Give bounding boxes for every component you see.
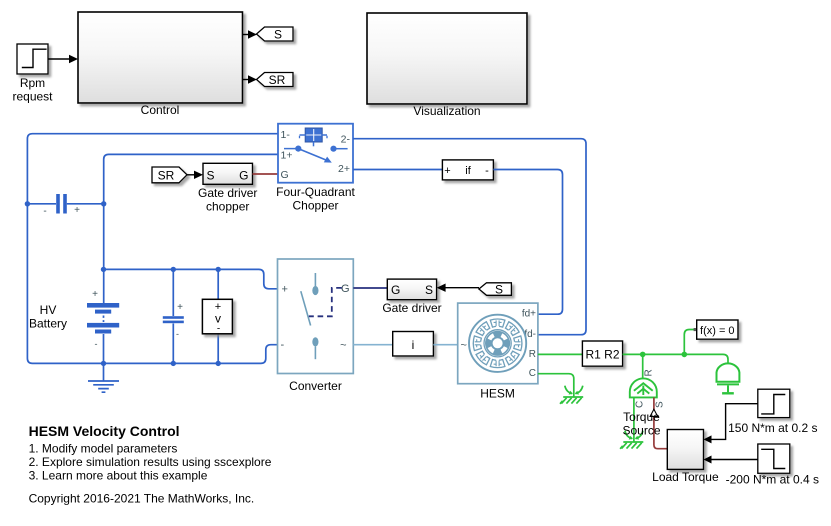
svg-text:HESM Velocity Control: HESM Velocity Control — [29, 423, 180, 439]
HESM motor icon — [469, 315, 526, 372]
wire Control to S tag — [243, 34, 250, 36]
svg-text:+: + — [444, 165, 450, 177]
svg-text:S: S — [274, 28, 282, 42]
svg-text:2+: 2+ — [338, 163, 350, 175]
wire converter G to Gate driver (navy) — [353, 287, 387, 289]
inertia — [717, 363, 740, 393]
wire gate chopper G to FQ chopper G (maroon) — [253, 173, 279, 175]
physical signal arrow — [650, 409, 658, 416]
FQ chopper switch icon — [284, 148, 296, 150]
rotational reference (HESM C) — [560, 386, 583, 404]
svg-text:-: - — [43, 206, 46, 217]
svg-text:1. Modify model parameters: 1. Modify model parameters — [29, 441, 178, 455]
svg-text:G: G — [281, 169, 289, 181]
subsystem Load Torque — [667, 430, 703, 470]
block Converter — [278, 259, 354, 374]
svg-text:Copyright 2016-2021 The MathWo: Copyright 2016-2021 The MathWorks, Inc. — [29, 492, 255, 506]
step source Rpm request — [17, 44, 48, 74]
capacitor — [172, 269, 174, 316]
svg-text:S: S — [655, 401, 666, 408]
voltage sensor — [217, 269, 219, 363]
svg-text:Control: Control — [141, 103, 180, 117]
svg-text:R: R — [529, 349, 536, 360]
svg-text:-: - — [217, 324, 220, 335]
wire SR tag to Gate driver chopper — [187, 174, 194, 176]
wire torque source C to rotational reference — [633, 397, 635, 442]
svg-text:Load Torque: Load Torque — [652, 470, 719, 484]
node bottom rail — [101, 361, 106, 366]
svg-text:R: R — [644, 369, 655, 376]
wire FQ 2- to HESM fd- — [353, 139, 586, 335]
node R net 1 — [640, 352, 646, 358]
svg-text:+: + — [74, 205, 80, 216]
wire HESM C to rotational reference — [538, 374, 574, 397]
wire converter ~ to i sensor — [353, 344, 392, 346]
wire HESM R to R1 R2 — [538, 353, 583, 355]
wire battery rail to chopper 1- — [27, 134, 278, 364]
svg-text:S: S — [207, 168, 215, 182]
node mid rail — [101, 267, 106, 272]
subsystem Gate driver — [387, 279, 436, 300]
svg-text:S: S — [495, 282, 503, 296]
svg-text:HV: HV — [40, 303, 57, 317]
svg-text:3. Learn more about this examp: 3. Learn more about this example — [29, 468, 208, 482]
svg-text:-: - — [176, 329, 179, 339]
svg-text:i: i — [412, 338, 415, 352]
svg-text:1-: 1- — [281, 129, 291, 141]
wire step 1 to Load Torque — [711, 404, 758, 440]
subsystem Gate driver chopper — [203, 163, 253, 184]
goto tag SR — [257, 73, 294, 87]
wire step 2 to Load Torque — [711, 459, 758, 461]
solver f(x)=0 — [697, 320, 738, 339]
svg-text:Battery: Battery — [29, 317, 67, 331]
svg-text:+: + — [92, 289, 98, 300]
wire S tag to Gate driver — [445, 287, 479, 289]
svg-text:request: request — [12, 90, 53, 104]
rotational reference (torque source C) — [620, 431, 643, 449]
svg-text:SR: SR — [269, 73, 286, 87]
step source 150 N*m at 0.2 s — [758, 389, 790, 417]
subsystem Visualization — [367, 13, 527, 104]
svg-text:Converter: Converter — [289, 379, 342, 393]
current sensor plates — [56, 194, 60, 214]
wire battery + to chopper 1+ — [104, 154, 278, 303]
svg-text:Source: Source — [622, 424, 660, 438]
svg-text:Gate driver: Gate driver — [382, 301, 441, 315]
svg-text:150 N*m at 0.2 s: 150 N*m at 0.2 s — [728, 421, 817, 435]
node R net 2 — [682, 352, 688, 358]
wire Control to SR tag — [243, 79, 250, 81]
FQ chopper IGBT icon — [305, 128, 322, 142]
svg-text:G: G — [391, 283, 400, 297]
wire node to solver — [684, 330, 696, 355]
wire R1 R2 to inertia — [623, 354, 728, 363]
block HESM — [458, 303, 538, 384]
wire current sensor rail — [27, 203, 103, 205]
svg-text:-: - — [485, 165, 489, 177]
wire node to torque source R — [642, 354, 644, 378]
goto tag S — [257, 27, 294, 41]
svg-text:fd+: fd+ — [522, 309, 536, 320]
converter switch icon — [314, 273, 316, 286]
wire if sensor to HESM fd+ — [493, 170, 562, 315]
wire mid rail to converter + — [104, 269, 278, 288]
svg-text:Four-Quadrant: Four-Quadrant — [276, 185, 355, 199]
svg-text:G: G — [239, 168, 248, 182]
svg-text:+: + — [177, 302, 183, 313]
electrical ground — [103, 363, 105, 381]
svg-text:Gate driver: Gate driver — [198, 186, 257, 200]
svg-text:~: ~ — [461, 340, 467, 352]
from tag S — [479, 283, 512, 296]
svg-text:2-: 2- — [341, 134, 351, 146]
svg-text:2. Explore simulation results: 2. Explore simulation results using ssce… — [29, 455, 272, 469]
wire i sensor to HESM — [433, 344, 457, 346]
svg-text:SR: SR — [158, 168, 175, 182]
converter gate dashed line — [309, 288, 342, 316]
wire Rpm request to Control — [48, 58, 70, 60]
step source -200 N*m at 0.4 s — [758, 444, 790, 473]
current sensor if — [442, 160, 493, 180]
svg-text:1+: 1+ — [281, 149, 293, 161]
svg-text:Torque: Torque — [623, 410, 660, 424]
from tag SR — [152, 167, 187, 183]
svg-text:Visualization: Visualization — [413, 104, 480, 118]
wire load torque to torque source S (maroon) — [654, 397, 667, 448]
svg-text:HESM: HESM — [480, 387, 515, 401]
torque source — [630, 378, 657, 397]
svg-text:R1 R2: R1 R2 — [585, 348, 619, 362]
svg-text:~: ~ — [340, 339, 346, 351]
block Four-Quadrant Chopper — [278, 124, 353, 183]
svg-text:chopper: chopper — [206, 200, 249, 214]
wire FQ 2+ to if sensor — [353, 169, 442, 171]
svg-text:C: C — [635, 401, 646, 408]
svg-text:if: if — [465, 165, 471, 177]
svg-text:-: - — [95, 339, 98, 349]
svg-text:-200 N*m at 0.4 s: -200 N*m at 0.4 s — [726, 473, 819, 487]
svg-text:Rpm: Rpm — [20, 76, 45, 90]
subsystem Control — [78, 12, 243, 103]
block R1 R2 — [582, 341, 622, 366]
svg-text:G: G — [341, 283, 350, 295]
svg-text:-: - — [281, 339, 285, 351]
svg-text:S: S — [425, 283, 433, 297]
svg-text:f(x) = 0: f(x) = 0 — [700, 325, 735, 337]
svg-text:Chopper: Chopper — [292, 199, 338, 213]
node battery top rail — [25, 201, 30, 206]
svg-text:+: + — [282, 284, 288, 296]
current sensor i — [393, 332, 434, 357]
svg-text:C: C — [529, 368, 536, 379]
